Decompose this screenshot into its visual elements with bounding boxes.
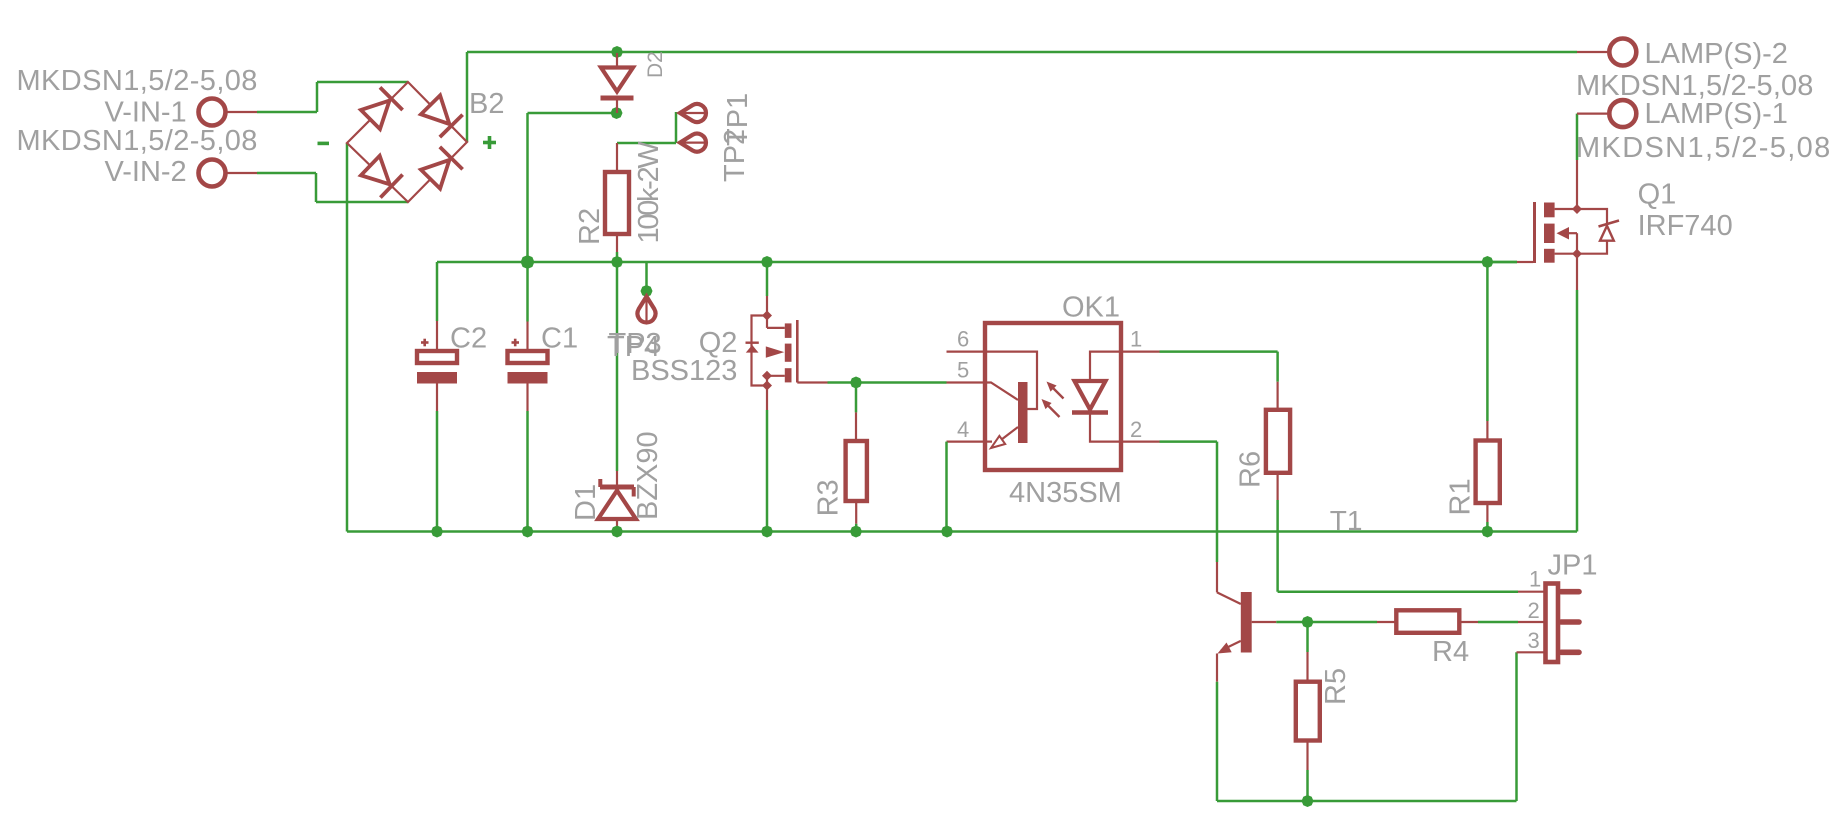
wire drain to LAMP(S)-1: [1576, 114, 1579, 160]
wire to test points TP1 TP2: [617, 142, 676, 145]
wire R3 top: [855, 383, 858, 413]
wire V-IN-2 to bridge bottom: [257, 172, 316, 175]
wire gate Q1: [1487, 261, 1517, 264]
node junction C1 bus: [522, 526, 534, 538]
svg-text:R4: R4: [1432, 636, 1469, 668]
bridge diode top-left: [361, 101, 390, 130]
node junction Q2 drain rail: [761, 256, 773, 268]
wire C1 top drop and up to D2 level: [526, 113, 529, 322]
wire bottom ground bus: [347, 530, 1577, 533]
connector pad V-IN-2: [199, 160, 226, 187]
svg-text:C1: C1: [541, 323, 578, 355]
OK1 phototransistor collector pin 5: [985, 383, 1018, 401]
svg-text:MKDSN1,5/2-5,08: MKDSN1,5/2-5,08: [17, 65, 258, 97]
svg-text:V-IN-1: V-IN-1: [105, 97, 187, 129]
bridge diode top-right: [421, 95, 450, 124]
node junction C2 bus: [431, 526, 443, 538]
svg-text:T1: T1: [1330, 505, 1363, 536]
svg-text:BZX90: BZX90: [632, 431, 664, 520]
svg-text:C2: C2: [450, 323, 487, 355]
JP1 pin 1 head: [1561, 589, 1579, 595]
resistor R1: [1476, 441, 1500, 504]
wire top net LAMP(S)-2 from bridge + up and across: [466, 52, 469, 142]
svg-text:R2: R2: [574, 208, 606, 245]
svg-text:4N35SM: 4N35SM: [1009, 477, 1122, 509]
wire Q2 source to bus: [766, 410, 769, 532]
node junction OK1 pin4 bus: [941, 526, 953, 538]
svg-text:R5: R5: [1320, 668, 1352, 705]
connector pad V-IN-1: [199, 99, 226, 126]
svg-text:2: 2: [1528, 598, 1540, 623]
test pad TP1: [680, 134, 706, 152]
node junction R2 bottom rail: [611, 256, 623, 268]
svg-text:LAMP(S)-1: LAMP(S)-1: [1645, 98, 1788, 130]
OK1 light arrow upper: [1052, 387, 1064, 399]
svg-text:LAMP(S)-2: LAMP(S)-2: [1645, 38, 1788, 70]
svg-text:5: 5: [957, 358, 969, 383]
node junction D2 bottom: [611, 107, 623, 119]
wire Q2 gate to R3 and OK1 pin 5: [797, 381, 827, 383]
zener diode D1 BZX90: [616, 471, 618, 487]
svg-text:R3: R3: [813, 479, 845, 516]
svg-text:100k-2W: 100k-2W: [633, 141, 665, 244]
resistor R3: [846, 441, 867, 501]
node junction D2 top on top wire: [611, 46, 623, 58]
OK1 light arrow lower: [1047, 405, 1060, 418]
test pad TP2: [680, 104, 706, 122]
bridge diode bottom-left: [361, 156, 390, 185]
wire V-IN-1 to bridge top: [257, 111, 317, 114]
svg-text:BSS123: BSS123: [631, 355, 737, 387]
polarity plus C1: [512, 341, 520, 344]
wire mid rail: [437, 261, 1517, 264]
svg-text:B2: B2: [469, 88, 504, 120]
connector JP1 body: [1546, 584, 1559, 663]
svg-text:TP1: TP1: [722, 93, 754, 146]
OK1 phototransistor emitter pin 4 with arrow: [985, 441, 992, 443]
OK1 phototransistor base line pin 6: [985, 352, 1037, 409]
wire OK1 pin1 to R6: [1160, 350, 1278, 353]
node junction D1 bus: [611, 526, 623, 538]
node junction TP3: [641, 285, 653, 297]
pin stub OK1 pin 2: [1121, 441, 1160, 443]
bridge minus sign: [318, 142, 330, 146]
wire rail to R1: [1486, 262, 1489, 421]
wire bottom emitter net to JP1 pin 3: [1217, 800, 1517, 803]
pin stub OK1 pin 6: [947, 351, 985, 353]
svg-text:1: 1: [1529, 567, 1541, 592]
JP1 pin 2 head: [1561, 619, 1579, 625]
diode D2: [616, 53, 618, 68]
transistor T1: [1217, 592, 1241, 604]
svg-text:OK1: OK1: [1062, 292, 1120, 324]
wire OK1 pin2 to T1 collector: [1160, 440, 1218, 443]
svg-text:IRF740: IRF740: [1638, 210, 1733, 242]
node junction base R5: [1302, 616, 1314, 628]
svg-text:Q1: Q1: [1638, 179, 1677, 211]
svg-text:4: 4: [957, 417, 969, 442]
OK1 phototransistor base bar: [1018, 382, 1028, 443]
optocoupler OK1 box: [985, 323, 1121, 470]
polarity plus C2: [421, 341, 429, 344]
svg-text:6: 6: [957, 327, 969, 352]
wire R6 bottom to JP1 pin 1: [1276, 473, 1278, 500]
resistor R4: [1377, 621, 1396, 623]
OK1 led cathode line pin 2: [1090, 414, 1121, 442]
wire rail to TP3: [645, 262, 648, 291]
svg-text:2: 2: [1130, 417, 1142, 442]
bridge diode bottom-right: [421, 160, 450, 189]
node junction R5 bottom: [1302, 795, 1314, 807]
pin stub OK1 pin 5: [947, 381, 985, 383]
wire T1 emitter down: [1216, 682, 1219, 801]
pin stub OK1 pin 1: [1121, 351, 1160, 353]
connector pad LAMP(S)-2: [1609, 39, 1636, 66]
connector pad LAMP(S)-1: [1609, 100, 1636, 127]
pin stub OK1 pin 4: [947, 441, 985, 443]
JP1 pin 3 head: [1561, 649, 1579, 655]
resistor R5: [1306, 622, 1309, 652]
wire OK1 pin 4 to bus: [945, 442, 948, 532]
transistor Q1 IRF740: [1533, 202, 1536, 263]
wire C2 top drop: [436, 262, 439, 321]
bridge rectifier B2 diamond: [347, 82, 467, 202]
resistor R2 100k-2W: [616, 143, 618, 172]
wire R1 bottom to bus: [1486, 503, 1488, 522]
node junction R1 bus: [1481, 526, 1493, 538]
OK1 led cathode bar: [1072, 410, 1108, 415]
node junction R3 top: [850, 377, 862, 389]
wire T1 base to R4: [1276, 621, 1377, 624]
svg-text:D1: D1: [570, 484, 602, 521]
OK1 led anode line pin 1: [1090, 352, 1121, 381]
OK1 led triangle: [1075, 381, 1106, 410]
wire bridge minus down to bottom bus: [346, 143, 349, 532]
svg-text:MKDSN1,5/2-5,08: MKDSN1,5/2-5,08: [1576, 132, 1832, 164]
wire R3 bottom: [855, 501, 857, 524]
svg-text:V-IN-2: V-IN-2: [105, 156, 187, 188]
svg-text:MKDSN1,5/2-5,08: MKDSN1,5/2-5,08: [17, 125, 258, 157]
svg-text:JP1: JP1: [1548, 550, 1598, 582]
bridge plus sign: [483, 141, 496, 145]
svg-text:D2: D2: [644, 51, 667, 78]
node junction R1 top rail: [1481, 256, 1493, 268]
transistor Q2 BSS123: [762, 311, 772, 321]
wire rail to D1: [616, 262, 619, 471]
resistor R6: [1266, 410, 1290, 473]
test pad TP3: [638, 297, 656, 323]
svg-text:1: 1: [1130, 327, 1142, 352]
capacitor C2: [436, 321, 438, 351]
node junction C1 rail: [521, 255, 535, 269]
node junction Q2 source bus: [761, 526, 773, 538]
svg-text:R6: R6: [1235, 451, 1267, 488]
wire rail to Q2 drain: [766, 262, 769, 296]
svg-text:3: 3: [1528, 628, 1540, 653]
node junction R3 bus: [850, 526, 862, 538]
capacitor C1: [526, 322, 528, 352]
svg-text:R1: R1: [1445, 478, 1477, 515]
